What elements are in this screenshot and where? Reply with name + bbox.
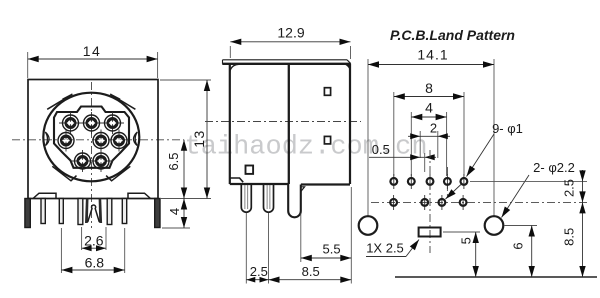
svg-text:2.5: 2.5 <box>562 179 577 197</box>
svg-text:14.1: 14.1 <box>417 47 448 63</box>
svg-text:5.5: 5.5 <box>323 242 341 257</box>
svg-text:6: 6 <box>511 242 526 249</box>
svg-text:2.5: 2.5 <box>250 264 268 279</box>
svg-text:8: 8 <box>425 80 433 96</box>
svg-text:4: 4 <box>425 100 433 116</box>
svg-text:6.5: 6.5 <box>166 152 181 170</box>
svg-text:2.6: 2.6 <box>84 233 104 249</box>
svg-text:13: 13 <box>191 129 207 148</box>
svg-text:6.8: 6.8 <box>85 255 105 271</box>
svg-text:2- φ2.2: 2- φ2.2 <box>533 160 575 175</box>
svg-text:0.5: 0.5 <box>372 142 390 157</box>
svg-text:12.9: 12.9 <box>277 25 304 41</box>
svg-text:5: 5 <box>459 237 474 244</box>
svg-text:2: 2 <box>430 121 437 136</box>
svg-text:8.5: 8.5 <box>562 228 577 246</box>
svg-text:4: 4 <box>167 208 182 215</box>
svg-text:8.5: 8.5 <box>302 264 320 279</box>
svg-text:14: 14 <box>83 43 102 59</box>
svg-text:taihaodz.com.cn: taihaodz.com.cn <box>185 133 428 163</box>
svg-text:P.C.B.Land Pattern: P.C.B.Land Pattern <box>390 27 515 43</box>
svg-text:1X 2.5: 1X 2.5 <box>366 241 404 256</box>
svg-text:9- φ1: 9- φ1 <box>492 121 523 136</box>
